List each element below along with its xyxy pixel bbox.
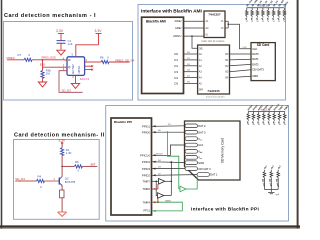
resistor R7: [24, 58, 32, 61]
SD pill GND: [185, 161, 204, 165]
wire PPID3 to CD/DAT3: [152, 167, 185, 170]
SD pill Vss: [185, 137, 202, 142]
pull-up resistor RQ2 PPID1: [251, 104, 259, 126]
C1 value label 1uF: [68, 39, 73, 46]
svg-text:ESD: ESD: [40, 63, 45, 67]
svg-text:D0: D0: [174, 52, 178, 56]
svg-text:BC547B: BC547B: [65, 180, 76, 184]
power 3.3V (IC supply): [95, 29, 103, 45]
svg-text:PPID2: PPID2: [142, 174, 151, 178]
svg-text:Blackfin AMI: Blackfin AMI: [146, 20, 166, 24]
wire R7 to pin 4 / net PRES_ESD: [32, 55, 65, 59]
wire D0 to buffer: [184, 52, 198, 54]
svg-text:1uF: 1uF: [68, 42, 73, 46]
ground (below C1): [57, 50, 65, 55]
R5b labels: [46, 68, 52, 75]
svg-text:74HC257: 74HC257: [208, 13, 221, 17]
svg-text:D1: D1: [174, 58, 178, 62]
resistor R6 (section 2): [74, 165, 82, 168]
page frame bottom edge: [0, 227, 300, 229]
section 3 border box: [138, 5, 286, 101]
svg-text:R6: R6: [75, 160, 79, 164]
SD pill DAT 0: [185, 130, 206, 134]
svg-text:TMR4: TMR4: [142, 201, 150, 205]
junction collector node: [61, 166, 63, 168]
svg-text:Card detection mechanism- II: Card detection mechanism- II: [14, 132, 105, 138]
pull-up resistor RQ5 PPID4: [267, 104, 275, 127]
svg-text:DIR: DIR: [199, 88, 203, 91]
Blackfin AMI block: [142, 17, 184, 93]
pull-up resistor RQ6 PPICLK: [272, 103, 281, 126]
svg-text:GND: GND: [198, 161, 204, 165]
svg-text:PPID0: PPID0: [142, 130, 151, 134]
wire SD_D3 to R4: [15, 180, 36, 182]
svg-text:DAT 2: DAT 2: [198, 124, 206, 128]
SD Memory Card block: [185, 121, 241, 180]
wire B4 to SD CMD: [230, 76, 252, 77]
svg-text:4AGY2: 4AGY2: [80, 77, 90, 81]
pull-up resistor RP1 SD_CLK: [244, 0, 253, 23]
wire R6 to INT: [82, 165, 97, 167]
svg-text:DAT 0: DAT 0: [198, 130, 206, 134]
svg-text:D4: D4: [174, 76, 178, 80]
pull-up resistor RP8 PRES: [282, 1, 290, 23]
svg-text:Interface with Blackfin PPI: Interface with Blackfin PPI: [191, 207, 259, 213]
svg-text:SD Memory Card: SD Memory Card: [221, 138, 225, 164]
Blackfin PPI block: [111, 118, 152, 215]
pull-down resistor RG2 SD_D2: [268, 164, 276, 189]
SD pill Vss2: [185, 156, 202, 161]
wire PRES to R7: [7, 59, 24, 61]
junction on PPID0 wire: [167, 131, 169, 133]
wire T1 output: [165, 180, 172, 182]
svg-text:PRES: PRES: [7, 56, 15, 60]
junction on PRES_ESD: [42, 59, 44, 61]
wire green net PPID0 branch to T3: [167, 132, 180, 189]
wire TMR6 (red) to T1 enable: [152, 184, 158, 190]
svg-text:AMS1/: AMS1/: [173, 34, 182, 38]
pull-up resistor RQ7 TMR7: [277, 105, 285, 127]
resistor R5b: [41, 70, 44, 78]
svg-text:PRES_ESD: PRES_ESD: [42, 55, 56, 59]
section 4 border box: [106, 106, 289, 222]
wire B0 to SD DAT0: [230, 53, 252, 55]
R1 labels 1.3K: [66, 148, 72, 155]
svg-text:buffer with 4k resistors: buffer with 4k resistors: [202, 40, 226, 43]
wire TMR7 branch down to T2: [156, 181, 157, 195]
svg-text:SD Card: SD Card: [257, 43, 270, 47]
pull-up resistor RQ8 TMR4: [282, 104, 290, 126]
wire R1 to collector node: [61, 156, 63, 167]
SD pill CD/DAT 3: [185, 167, 211, 171]
svg-text:gnd: gnd: [276, 194, 279, 196]
page frame right edge: [297, 0, 299, 229]
wire junction down to pin 3 row: [43, 60, 65, 67]
ground (below R5b): [38, 82, 46, 87]
SD Card block: [251, 43, 275, 81]
svg-text:PPICLK: PPICLK: [140, 154, 150, 158]
pull-up resistor RQ4 PPID3: [261, 104, 269, 126]
transceiver U3 74HC245: [198, 45, 230, 94]
pull-up resistor RP3 SD_D0: [255, 0, 263, 23]
wire D3 to buffer: [184, 70, 198, 72]
wire R5b to ground: [42, 78, 44, 82]
wire T2 enable (red) to TMR4 row: [157, 198, 159, 203]
section 1 border box: [4, 22, 133, 101]
wire D2 to buffer: [184, 64, 198, 66]
svg-text:ss: ss: [200, 139, 202, 141]
resistor R (emitter, box style): [60, 190, 64, 212]
svg-text:NC7WZ: NC7WZ: [71, 64, 75, 74]
svg-text:INT: INT: [91, 162, 96, 166]
svg-text:PPID1: PPID1: [142, 125, 151, 129]
wire down to R5b: [42, 67, 44, 70]
wire D4 to buffer: [184, 76, 198, 78]
SD pill Vdd: [185, 150, 202, 155]
svg-text:CLK: CLK: [198, 143, 203, 147]
wire PPID4: [152, 160, 185, 163]
svg-text:PPID4: PPID4: [142, 160, 151, 164]
wire B1 to SD DAT1: [230, 58, 252, 61]
Q2 labels: [65, 177, 76, 184]
svg-text:CLK: CLK: [243, 47, 248, 49]
svg-text:PF11: PF11: [144, 208, 151, 212]
pull-up resistor RP4 SD_D1: [260, 0, 268, 23]
section 2 border box: [14, 140, 100, 220]
wire PPID2 to DAT1: [152, 173, 197, 176]
resistor R1: [61, 148, 64, 156]
svg-text:dd: dd: [200, 152, 202, 154]
wire Y1-Y2 tie to SD CLK: [225, 21, 251, 49]
svg-text:DAT2: DAT2: [252, 62, 259, 66]
resistor R4: [37, 179, 45, 182]
wire pin 6 to net SD_D3: [59, 71, 83, 93]
wire pin1 to R6: [87, 61, 101, 63]
ground (below U1 pin 2): [71, 83, 79, 88]
wire T2 output: [164, 195, 172, 197]
buffer T2: [158, 193, 164, 199]
wire TMR7 to buffer T1: [152, 181, 158, 183]
wire R6 to net PRES_SD_D4: [109, 58, 135, 62]
svg-text:Interface with Blackfin AMI: Interface with Blackfin AMI: [141, 9, 203, 15]
svg-text:D5: D5: [174, 82, 178, 86]
svg-text:SD_D3: SD_D3: [62, 88, 72, 92]
svg-text:3.3V: 3.3V: [56, 29, 64, 33]
wire TMR4 (green): [152, 200, 182, 212]
svg-text:R4: R4: [38, 175, 42, 179]
ground (pull-down trio): [268, 192, 279, 195]
svg-text:SD_D3: SD_D3: [15, 177, 25, 181]
svg-text:TMR6: TMR6: [142, 187, 150, 191]
pull-down resistor RG1 SD_D1: [261, 164, 269, 189]
op-amp / gate U1 body: [65, 55, 87, 84]
pull-up rail Vcc 3.3v (PPI): [248, 109, 284, 111]
svg-text:DAT 1: DAT 1: [210, 173, 218, 177]
wire D1 to buffer: [184, 58, 198, 60]
ground (emitter): [58, 212, 67, 216]
wire AWE to 74HC257: [184, 20, 205, 22]
wire B3 to SD CD/DAT3: [230, 70, 252, 72]
svg-text:1M: 1M: [46, 72, 51, 76]
SD pill CLK: [185, 143, 204, 147]
wire ARE to 74HC257: [184, 27, 205, 29]
svg-text:Card detection mechanism - I: Card detection mechanism - I: [4, 13, 96, 19]
page frame left edge: [1, 0, 3, 229]
svg-text:ARE/: ARE/: [175, 26, 182, 30]
svg-text:16P6X: 16P6X: [77, 66, 81, 74]
no-connect stubs pins 1-2 right: [87, 65, 93, 70]
wire pull-down common bus: [264, 189, 278, 192]
svg-text:CMD: CMD: [252, 74, 258, 78]
wire collector node to R6: [62, 165, 74, 167]
svg-text:bi-directional buffer: bi-directional buffer: [206, 95, 225, 98]
svg-text:DAT0: DAT0: [252, 52, 259, 56]
wire VCC to IC pin 5: [76, 45, 99, 55]
wire PPID0 to DAT0: [152, 130, 185, 133]
SD pill DAT 2: [185, 124, 206, 128]
power 3.3V: [59, 139, 66, 148]
buffer T3 (green): [180, 186, 186, 192]
svg-text:R7: R7: [18, 53, 22, 57]
svg-text:SDCLK: SDCLK: [156, 153, 164, 155]
pull-up resistor RP2 SD_CMD: [250, 0, 260, 23]
pull-up resistor RQ3 PPID2: [256, 104, 264, 126]
svg-text:PPID3: PPID3: [142, 167, 151, 171]
wire D5 to buffer: [184, 82, 198, 84]
wire buffer outputs vertical bus: [170, 162, 172, 196]
pull-up resistor RP7 SD_WP: [276, 0, 285, 23]
svg-text:D3: D3: [174, 70, 178, 74]
svg-text:TMR4: TMR4: [165, 200, 172, 202]
svg-text:CLK: CLK: [252, 47, 257, 51]
wire AMS1 to G/ and OE/: [184, 35, 205, 48]
pull-up rail Vcc 3.3v (AMI): [247, 6, 285, 8]
svg-text:R6: R6: [100, 56, 104, 60]
svg-text:AWE/: AWE/: [174, 19, 181, 23]
wire R4 to base: [45, 180, 60, 182]
svg-text:Blackfin PPI: Blackfin PPI: [114, 120, 132, 124]
junction on PPID4 wire: [170, 161, 172, 163]
capacitor C1: [57, 39, 66, 50]
multiplexer U2 74HC257: [204, 11, 225, 38]
SD pill DAT 1: [197, 173, 218, 177]
buffer T1: [159, 179, 165, 185]
junction T1 output: [171, 181, 173, 183]
pull-up resistor RP5 SD_D2: [266, 0, 274, 23]
pull-down resistor RG3 SD_WP: [275, 164, 283, 189]
wire PPID1 to DAT2: [152, 124, 185, 127]
pull-up resistor RP6 SD_D3: [271, 0, 279, 23]
svg-text:1.3K: 1.3K: [66, 151, 72, 155]
wire T3 output (green) to DAT1: [186, 176, 197, 189]
svg-text:TMR7: TMR7: [142, 180, 150, 184]
svg-text:G/: G/: [206, 34, 209, 37]
power 3.3V (decoupling branch): [56, 29, 64, 39]
svg-text:CD/ DAT3: CD/ DAT3: [252, 68, 264, 72]
svg-text:D2: D2: [174, 64, 178, 68]
svg-text:PRES_SD_D4: PRES_SD_D4: [116, 58, 135, 62]
pull-up resistor RQ1 PPID0: [246, 104, 254, 126]
svg-text:74HC245: 74HC245: [207, 89, 220, 93]
svg-text:3.3V: 3.3V: [95, 29, 103, 33]
resistor R6: [101, 60, 109, 63]
svg-text:CD/ DAT 3: CD/ DAT 3: [198, 167, 211, 171]
wire PPICLK to CLK: [152, 145, 185, 156]
svg-text:OE/: OE/: [199, 47, 203, 50]
svg-text:DAT1: DAT1: [252, 57, 259, 61]
wire B2 to SD DAT2: [230, 64, 252, 65]
transistor Q2 BC547B: [59, 166, 62, 190]
svg-text:ss: ss: [200, 158, 202, 160]
